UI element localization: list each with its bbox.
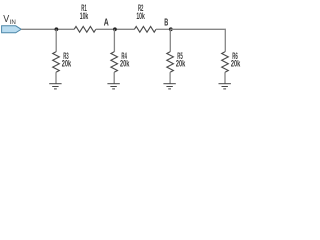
ground (R4) — [107, 84, 119, 89]
svg-text:20k: 20k — [120, 58, 130, 68]
resistor R2 (horizontal zigzag) — [134, 26, 156, 32]
svg-text:B: B — [164, 17, 168, 28]
wire: R3 to ground — [55, 72, 57, 84]
svg-text:10k: 10k — [80, 11, 89, 21]
input net tag VIN — [2, 26, 22, 33]
wire: R2 to node B — [156, 28, 170, 30]
svg-text:V: V — [3, 14, 9, 25]
node A junction dot — [113, 27, 117, 31]
svg-text:A: A — [104, 18, 109, 29]
svg-text:20k: 20k — [176, 58, 186, 68]
svg-text:10k: 10k — [136, 11, 145, 21]
node B junction dot — [169, 27, 173, 31]
resistor R3 (vertical zigzag) — [53, 52, 60, 72]
ground (R3) — [49, 84, 61, 89]
wire: R3 tap down — [55, 29, 57, 52]
resistor R4 (vertical zigzag) — [111, 52, 118, 72]
wire: R4 to ground — [113, 72, 115, 84]
wire: R1 to R2 through node A — [96, 28, 135, 30]
wire: node B to top-right corner down to R6 — [170, 29, 225, 52]
resistor R6 (vertical zigzag) — [222, 52, 229, 72]
junction dot at R3 tap — [55, 27, 59, 31]
svg-text:IN: IN — [10, 19, 16, 26]
wire: node B down to R5 — [169, 29, 171, 52]
svg-text:20k: 20k — [231, 58, 241, 68]
resistor R1 (horizontal zigzag) — [74, 26, 96, 32]
wire: R6 to ground — [224, 72, 226, 84]
wire: node A down to R4 — [113, 29, 115, 52]
wire: R5 to ground — [169, 72, 171, 84]
ground (R6) — [219, 84, 231, 89]
resistor R5 (vertical zigzag) — [167, 52, 174, 72]
ground (R5) — [163, 84, 175, 89]
svg-text:20k: 20k — [62, 58, 72, 68]
wire: VIN tag to R1 — [21, 28, 74, 30]
